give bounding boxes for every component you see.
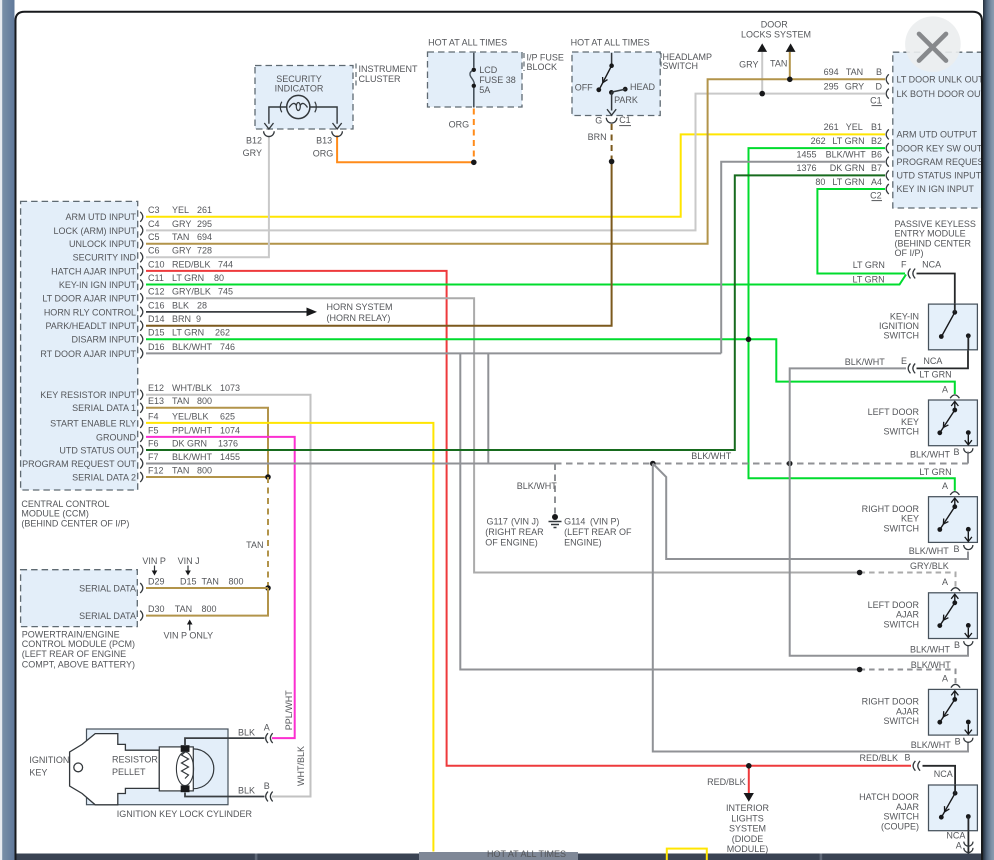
- svg-text:G: G: [595, 116, 602, 126]
- headlamp switch box: [572, 52, 660, 116]
- connector B left door key: [964, 448, 973, 453]
- wire BLK 28: CCM C16 horn control: [146, 311, 308, 313]
- node BRN splice: [609, 159, 615, 165]
- svg-text:LT GRN: LT GRN: [832, 136, 864, 146]
- svg-text:1455: 1455: [220, 452, 240, 462]
- svg-text:I/P FUSE: I/P FUSE: [527, 53, 564, 63]
- svg-text:SECURITY: SECURITY: [276, 74, 322, 84]
- svg-text:PPL/WHT: PPL/WHT: [172, 425, 213, 435]
- svg-text:C2: C2: [870, 190, 882, 200]
- CCM pin F12 SERIAL DATA 2: [140, 472, 143, 482]
- svg-text:(COUPE): (COUPE): [881, 821, 919, 831]
- svg-text:C12: C12: [148, 287, 165, 297]
- svg-text:VIN J: VIN J: [178, 556, 200, 566]
- svg-text:A: A: [942, 674, 948, 684]
- CCM pin D15 DISARM INPUT: [140, 334, 143, 344]
- instrument cluster / security indicator box: [255, 66, 353, 130]
- svg-text:TAN: TAN: [172, 232, 189, 242]
- svg-text:WHT/BLK: WHT/BLK: [296, 746, 306, 786]
- CCM pin C12 LT DOOR AJAR INPUT: [140, 293, 143, 303]
- svg-text:INDICATOR: INDICATOR: [275, 84, 324, 94]
- svg-text:IGNITION: IGNITION: [29, 755, 69, 765]
- svg-text:C3: C3: [148, 205, 160, 215]
- CCM pin E13 SERIAL DATA 1: [140, 403, 143, 413]
- svg-text:PARK: PARK: [614, 95, 638, 105]
- node TAN splice F12: [265, 474, 271, 480]
- svg-text:261: 261: [824, 122, 839, 132]
- svg-text:(LEFT REAR OF ENGINE: (LEFT REAR OF ENGINE: [22, 649, 126, 659]
- arrow GRY up: [757, 43, 767, 52]
- wire BLK/WHT dashed splice line: [555, 463, 968, 465]
- svg-text:B: B: [953, 447, 959, 457]
- CCM pin C10 HATCH AJAR INPUT: [140, 266, 143, 276]
- svg-text:728: 728: [197, 246, 212, 256]
- svg-text:1376: 1376: [218, 438, 238, 448]
- svg-text:295: 295: [197, 219, 212, 229]
- svg-text:B7: B7: [871, 163, 882, 173]
- svg-text:SWITCH: SWITCH: [884, 812, 920, 822]
- right door key switch: [929, 497, 978, 543]
- svg-text:LT GRN: LT GRN: [172, 328, 204, 338]
- svg-text:KEY-IN IGN INPUT: KEY-IN IGN INPUT: [59, 280, 137, 290]
- lamp leads: [269, 107, 337, 124]
- passive keyless entry module box: [893, 52, 984, 208]
- CCM pin C16 HORN RLY CONTROL: [140, 307, 143, 317]
- wire LT GRN 262: PKE B2 down to splice and door key switches: [749, 148, 955, 491]
- svg-text:744: 744: [218, 259, 233, 269]
- svg-text:HATCH AJAR INPUT: HATCH AJAR INPUT: [51, 266, 136, 276]
- wire NCA black: hatch switch contact down to A: [967, 817, 969, 854]
- svg-text:C10: C10: [148, 259, 165, 269]
- svg-text:F7: F7: [148, 452, 159, 462]
- connector G C1: [606, 118, 617, 123]
- svg-text:INTERIOR: INTERIOR: [726, 803, 770, 813]
- wire RED/BLK branch to interior lights: [748, 766, 750, 793]
- node LT GRN splice: [746, 337, 752, 343]
- svg-text:LCD: LCD: [479, 65, 498, 75]
- svg-text:VIN P ONLY: VIN P ONLY: [164, 631, 214, 641]
- node GRY splice: [759, 91, 765, 97]
- svg-text:VIN P: VIN P: [142, 556, 166, 566]
- svg-text:SWITCH: SWITCH: [884, 619, 920, 629]
- svg-text:TAN: TAN: [246, 540, 263, 550]
- svg-text:BLK/WHT: BLK/WHT: [910, 450, 951, 460]
- svg-text:B: B: [876, 67, 882, 77]
- svg-text:262: 262: [811, 136, 826, 146]
- svg-text:WHT/BLK: WHT/BLK: [172, 383, 212, 393]
- svg-text:1376: 1376: [796, 163, 816, 173]
- svg-text:B: B: [953, 544, 959, 554]
- svg-text:DISARM INPUT: DISARM INPUT: [71, 335, 136, 345]
- svg-text:LT GRN: LT GRN: [832, 177, 864, 187]
- svg-text:KEY-IN: KEY-IN: [890, 311, 919, 321]
- svg-text:LT GRN: LT GRN: [919, 369, 951, 379]
- resistor pellet R: [181, 745, 190, 752]
- svg-text:BLK/WHT: BLK/WHT: [691, 451, 732, 461]
- svg-text:(RIGHT REAR: (RIGHT REAR: [485, 527, 544, 537]
- svg-text:GRY/BLK: GRY/BLK: [910, 561, 949, 571]
- svg-text:LK BOTH DOOR OUT: LK BOTH DOOR OUT: [897, 89, 987, 99]
- svg-text:D14: D14: [148, 314, 165, 324]
- wire TAN 800: CCM F12 serial data 2: [146, 476, 268, 478]
- svg-text:B: B: [264, 781, 270, 791]
- resistor pellet housing: [159, 747, 193, 791]
- svg-text:OF I/P): OF I/P): [895, 248, 924, 258]
- svg-text:SERIAL DATA 2: SERIAL DATA 2: [72, 472, 136, 482]
- svg-text:262: 262: [215, 328, 230, 338]
- wire WHT/BLK 1073: CCM E12 to key lock cylinder B: [146, 395, 311, 797]
- CCM pin F4 START ENABLE RLY: [140, 418, 143, 428]
- svg-text:HOT AT ALL TIMES: HOT AT ALL TIMES: [428, 37, 507, 47]
- wire BLK/WHT key-in switch E to left door ajar B: [790, 368, 968, 655]
- svg-text:START ENABLE RLY: START ENABLE RLY: [50, 418, 136, 428]
- wire YEL/BLK 625: CCM F4 start enable relay: [146, 423, 433, 852]
- connector B left door ajar: [964, 641, 973, 646]
- bottom taskbar: [9, 854, 983, 860]
- svg-text:COMPT, ABOVE BATTERY): COMPT, ABOVE BATTERY): [22, 660, 135, 670]
- svg-text:NCA: NCA: [922, 260, 941, 270]
- svg-text:BLK/WHT: BLK/WHT: [845, 357, 886, 367]
- svg-text:A: A: [942, 384, 948, 394]
- svg-text:800: 800: [202, 604, 217, 614]
- svg-text:A: A: [956, 841, 962, 851]
- CCM pin C3 ARM UTD INPUT: [140, 212, 143, 222]
- svg-text:1455: 1455: [796, 150, 816, 160]
- svg-text:RT DOOR AJAR INPUT: RT DOOR AJAR INPUT: [40, 349, 136, 359]
- PKE pin B LT DOOR UNLK OUT: [886, 74, 889, 84]
- svg-text:ENTRY MODULE: ENTRY MODULE: [895, 229, 966, 239]
- svg-text:CONTROL MODULE (PCM): CONTROL MODULE (PCM): [22, 639, 135, 649]
- svg-text:KEY: KEY: [901, 514, 919, 524]
- svg-text:DOOR: DOOR: [761, 20, 789, 30]
- key-in switch inner leads: [954, 304, 956, 312]
- wire ORG: instrument cluster B13 to fuse splice: [337, 135, 474, 162]
- svg-text:B12: B12: [246, 135, 262, 145]
- svg-text:BLK/WHT: BLK/WHT: [911, 740, 952, 750]
- ignition key: [70, 734, 160, 805]
- svg-text:ORG: ORG: [449, 120, 470, 130]
- svg-text:SECURITY IND: SECURITY IND: [73, 253, 137, 263]
- svg-text:LT GRN: LT GRN: [172, 273, 204, 283]
- svg-text:SYSTEM: SYSTEM: [729, 824, 766, 834]
- svg-text:B: B: [954, 640, 960, 650]
- svg-text:LEFT DOOR: LEFT DOOR: [868, 600, 920, 610]
- svg-text:ORG: ORG: [313, 148, 334, 158]
- svg-text:C1: C1: [619, 115, 631, 125]
- svg-text:694: 694: [824, 67, 839, 77]
- wire BLK/WHT dashed drop to ground: [554, 464, 556, 514]
- svg-text:746: 746: [220, 342, 235, 352]
- ground G117/G114: [552, 514, 558, 520]
- svg-text:TAN: TAN: [846, 67, 863, 77]
- svg-text:C16: C16: [148, 300, 165, 310]
- node TAN splice: [787, 77, 793, 83]
- node ORG splice: [471, 160, 477, 166]
- PCM pin D29 SERIAL DATA: [140, 583, 143, 593]
- svg-text:YEL: YEL: [172, 205, 189, 215]
- svg-text:RED/BLK: RED/BLK: [172, 259, 211, 269]
- node TAN splice D29: [265, 585, 271, 591]
- PCM pin D30 SERIAL DATA: [140, 611, 143, 621]
- svg-text:(DIODE: (DIODE: [732, 834, 764, 844]
- CCM pin C4 LOCK (ARM) INPUT: [140, 225, 143, 235]
- PKE pin A4 KEY IN IGN INPUT: [886, 184, 889, 194]
- close button: [905, 16, 961, 72]
- svg-text:UTD STATUS INPUT: UTD STATUS INPUT: [897, 171, 982, 181]
- svg-text:C5: C5: [148, 232, 160, 242]
- horn arrow: [307, 308, 318, 317]
- svg-text:PROGRAM REQUEST OUT: PROGRAM REQUEST OUT: [22, 459, 136, 469]
- wire TAN 800: CCM E13 serial data 1: [146, 408, 268, 477]
- wire BLK/WHT 1455: CCM F7 program request out: [146, 463, 555, 465]
- svg-text:GRY: GRY: [172, 219, 191, 229]
- svg-text:A4: A4: [871, 177, 882, 187]
- svg-text:NCA: NCA: [946, 830, 965, 840]
- svg-text:ARM UTD INPUT: ARM UTD INPUT: [66, 212, 137, 222]
- CCM module box: [21, 201, 138, 490]
- svg-text:A: A: [264, 723, 270, 733]
- svg-text:RESISTOR: RESISTOR: [112, 755, 158, 765]
- svg-text:SWITCH: SWITCH: [884, 427, 920, 437]
- svg-text:OFF: OFF: [575, 82, 593, 92]
- node GRY/BLK splice: [857, 570, 863, 576]
- CCM pin C11 KEY-IN IGN INPUT: [140, 280, 143, 290]
- hatch switch inner leads: [954, 785, 956, 794]
- right sidebar: [983, 0, 994, 860]
- svg-text:D15: D15: [180, 576, 197, 586]
- wire LT GRN branch to left door key switch A: [749, 339, 955, 394]
- svg-text:SWITCH: SWITCH: [884, 331, 920, 341]
- node BLK/WHT splice 2: [787, 461, 793, 467]
- CCM pin C5 UNLOCK INPUT: [140, 239, 143, 249]
- svg-text:GRY: GRY: [172, 246, 191, 256]
- node BLK/WHT splice 1: [650, 461, 656, 467]
- svg-text:POWERTRAIN/ENGINE: POWERTRAIN/ENGINE: [22, 629, 120, 639]
- svg-text:LIGHTS: LIGHTS: [731, 813, 764, 823]
- svg-text:LOCK (ARM) INPUT: LOCK (ARM) INPUT: [53, 226, 136, 236]
- svg-text:GRY: GRY: [845, 81, 864, 91]
- svg-text:KEY: KEY: [29, 768, 47, 778]
- svg-text:1074: 1074: [220, 425, 240, 435]
- svg-text:PASSIVE KEYLESS: PASSIVE KEYLESS: [895, 219, 976, 229]
- svg-text:LEFT DOOR: LEFT DOOR: [868, 407, 920, 417]
- wire GRY 295: CCM C4 to PKE D: [146, 94, 885, 231]
- svg-text:SWITCH: SWITCH: [884, 716, 920, 726]
- hatch door ajar switch: [929, 785, 978, 831]
- svg-text:RIGHT DOOR: RIGHT DOOR: [862, 504, 920, 514]
- connector A left door key: [950, 395, 959, 398]
- svg-text:E13: E13: [148, 396, 164, 406]
- wire BLK/WHT 746: CCM D16 to right door ajar switch A: [146, 352, 721, 354]
- svg-text:NCA: NCA: [923, 356, 942, 366]
- wire GRY 728: CCM C6 to instrument cluster B12: [146, 135, 269, 257]
- svg-text:B: B: [955, 736, 961, 746]
- svg-text:A: A: [942, 481, 948, 491]
- wire DK GRN 1376: CCM F6 to PKE B7: [146, 175, 885, 450]
- CCM pin C6 SECURITY IND: [140, 252, 143, 262]
- svg-text:625: 625: [220, 411, 235, 421]
- svg-text:HOT AT ALL TIMES: HOT AT ALL TIMES: [571, 38, 650, 48]
- svg-text:745: 745: [218, 287, 233, 297]
- CCM pin D16 RT DOOR AJAR INPUT: [140, 348, 143, 358]
- fuse LCD FUSE 38 5A: [473, 53, 475, 108]
- connector A key cylinder: [266, 733, 268, 743]
- svg-text:TAN: TAN: [202, 576, 219, 586]
- wire TAN PCM D29: [146, 587, 268, 589]
- interior lights arrow: [744, 793, 754, 802]
- CCM pin F5 GROUND: [140, 432, 143, 442]
- node BLK/WHT splice: [857, 667, 863, 673]
- svg-text:MODULE): MODULE): [727, 844, 769, 854]
- wire BLK key cylinder A: [185, 738, 265, 745]
- svg-text:TAN: TAN: [172, 465, 189, 475]
- svg-text:BLOCK: BLOCK: [527, 62, 558, 72]
- wire BRN dashed below headlamp switch: [611, 124, 613, 162]
- svg-text:SWITCH: SWITCH: [884, 523, 920, 533]
- svg-text:B6: B6: [871, 150, 882, 160]
- svg-text:B: B: [905, 753, 911, 763]
- wire TAN dashed serial data down: [267, 477, 269, 588]
- svg-text:C6: C6: [148, 246, 160, 256]
- wire GRY branch to door locks system: [761, 52, 763, 94]
- svg-text:ENGINE): ENGINE): [564, 537, 602, 547]
- wire LT GRN 262: CCM D15 to splice: [146, 338, 749, 340]
- right door ajar switch: [929, 689, 978, 735]
- I/P fuse block box: [428, 52, 523, 107]
- svg-text:ARM UTD OUTPUT: ARM UTD OUTPUT: [897, 130, 978, 140]
- svg-text:D16: D16: [148, 342, 165, 352]
- svg-text:CENTRAL CONTROL: CENTRAL CONTROL: [21, 499, 109, 509]
- svg-text:800: 800: [229, 576, 244, 586]
- svg-text:SWITCH: SWITCH: [663, 61, 699, 71]
- node RED/BLK splice: [746, 763, 752, 769]
- wire BLK/WHT right door ajar B return: [653, 464, 968, 752]
- svg-text:F: F: [901, 260, 907, 270]
- svg-text:UNLOCK INPUT: UNLOCK INPUT: [69, 239, 137, 249]
- svg-text:D: D: [876, 81, 883, 91]
- svg-text:NCA: NCA: [934, 769, 953, 779]
- svg-text:HORN SYSTEM: HORN SYSTEM: [327, 302, 393, 312]
- wire TAN PCM D30 loop: [146, 588, 268, 616]
- svg-text:E: E: [901, 356, 907, 366]
- wire YEL 261: CCM C3 to PKE B1: [146, 134, 885, 216]
- connector B13: [332, 131, 343, 136]
- svg-text:(BEHIND CENTER OF I/P): (BEHIND CENTER OF I/P): [21, 518, 129, 528]
- svg-text:CLUSTER: CLUSTER: [359, 74, 402, 84]
- svg-text:FUSE 38: FUSE 38: [479, 75, 516, 85]
- svg-text:BLK: BLK: [238, 728, 255, 738]
- svg-text:SERIAL DATA 1: SERIAL DATA 1: [72, 403, 136, 413]
- svg-text:D15: D15: [148, 328, 165, 338]
- wire PPL/WHT 1074: CCM F5 ground to key lock cylinder A: [146, 437, 295, 738]
- PKE pin B7 UTD STATUS INPUT: [886, 170, 889, 180]
- left sidebar: [0, 0, 15, 860]
- svg-text:KEY IN IGN INPUT: KEY IN IGN INPUT: [897, 184, 975, 194]
- PKE pin B1 ARM UTD OUTPUT: [886, 129, 889, 139]
- svg-text:BRN: BRN: [172, 314, 191, 324]
- svg-text:B13: B13: [316, 135, 332, 145]
- headlamp switch internals: [611, 53, 613, 66]
- wire BRN 9: headlamp switch to CCM D14: [146, 162, 612, 326]
- security indicator lamp: [287, 95, 310, 118]
- wire GRY/BLK 745: CCM C12 to left door ajar switch A: [146, 298, 858, 572]
- svg-text:G114: G114: [564, 517, 585, 527]
- svg-text:GRY: GRY: [739, 60, 758, 70]
- svg-text:D29: D29: [148, 576, 165, 586]
- svg-text:LOCKS SYSTEM: LOCKS SYSTEM: [741, 30, 811, 40]
- svg-text:YEL/BLK: YEL/BLK: [172, 411, 209, 421]
- svg-text:PELLET: PELLET: [112, 767, 146, 777]
- svg-text:PPL/WHT: PPL/WHT: [284, 690, 294, 731]
- left door key switch: [929, 400, 978, 446]
- CCM pin D14 PARK/HEADLT INPUT: [140, 321, 143, 331]
- svg-text:PARK/HEADLT INPUT: PARK/HEADLT INPUT: [45, 321, 136, 331]
- svg-text:RED/BLK: RED/BLK: [707, 777, 746, 787]
- svg-text:HOT AT ALL TIMES: HOT AT ALL TIMES: [487, 849, 566, 859]
- svg-text:BLK/WHT: BLK/WHT: [826, 150, 867, 160]
- svg-text:BLK/WHT: BLK/WHT: [911, 660, 952, 670]
- svg-text:BLK/WHT: BLK/WHT: [910, 644, 951, 654]
- wire BLK/WHT left door key B drop: [967, 452, 969, 464]
- svg-text:(BEHIND CENTER: (BEHIND CENTER: [895, 238, 972, 248]
- svg-text:694: 694: [197, 232, 212, 242]
- svg-text:YEL: YEL: [846, 122, 863, 132]
- wire RED/BLK 744: CCM C10 to hatch ajar switch B: [146, 271, 911, 766]
- svg-text:BLK: BLK: [238, 786, 255, 796]
- svg-text:KEY: KEY: [901, 417, 919, 427]
- svg-text:BRN: BRN: [588, 132, 607, 142]
- svg-text:GRY/BLK: GRY/BLK: [172, 287, 211, 297]
- svg-text:RIGHT DOOR: RIGHT DOOR: [862, 697, 920, 707]
- svg-text:BLK/WHT: BLK/WHT: [909, 546, 950, 556]
- key-in ignition switch: [929, 304, 978, 350]
- CCM pin F6 UTD STATUS OUT: [140, 445, 143, 455]
- svg-text:E12: E12: [148, 383, 164, 393]
- svg-text:80: 80: [815, 177, 825, 187]
- svg-text:BLK/WHT: BLK/WHT: [172, 452, 213, 462]
- connector B12: [264, 131, 275, 136]
- svg-text:BLK/WHT: BLK/WHT: [172, 342, 213, 352]
- svg-text:LT GRN: LT GRN: [853, 260, 885, 270]
- svg-text:B1: B1: [871, 122, 882, 132]
- svg-text:800: 800: [197, 396, 212, 406]
- connector A right door ajar: [951, 684, 960, 687]
- wire LT GRN A4 loop to connector F: [817, 189, 905, 274]
- svg-text:(VIN J): (VIN J): [511, 517, 539, 527]
- svg-text:RED/BLK: RED/BLK: [859, 753, 898, 763]
- svg-text:HORN RLY CONTROL: HORN RLY CONTROL: [44, 307, 136, 317]
- connector B key cylinder: [266, 792, 268, 802]
- wire LT GRN 80: CCM C11 to PKE connector F: [146, 275, 906, 285]
- svg-text:F4: F4: [148, 411, 159, 421]
- svg-text:HATCH DOOR: HATCH DOOR: [859, 792, 919, 802]
- arrow TAN up: [786, 43, 796, 52]
- svg-text:C11: C11: [148, 273, 164, 283]
- connector A left door ajar: [951, 588, 960, 591]
- svg-text:TAN: TAN: [172, 396, 189, 406]
- connector B right door key: [964, 545, 973, 550]
- svg-text:D30: D30: [148, 604, 165, 614]
- wire BLK/WHT 1455: PKE B6 drop: [721, 162, 885, 354]
- ignition key lock cylinder box: [87, 729, 229, 805]
- svg-text:5A: 5A: [479, 85, 490, 95]
- svg-text:LT GRN: LT GRN: [919, 467, 951, 477]
- wire NCA black: hatch B connector to hatch switch: [923, 766, 956, 793]
- CCM pin E12 KEY RESISTOR INPUT: [140, 390, 143, 400]
- svg-text:F6: F6: [148, 438, 159, 448]
- connector B hatch: [913, 761, 915, 771]
- svg-text:LT GRN: LT GRN: [853, 275, 885, 285]
